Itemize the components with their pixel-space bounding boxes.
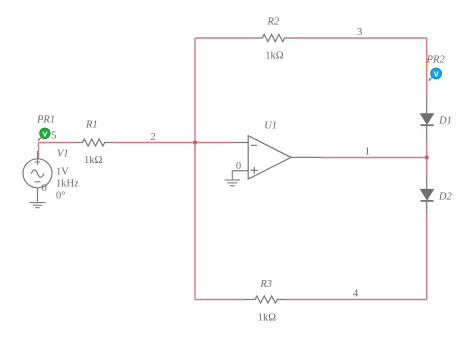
wire D2 cathode to bottom-right corner (net 4)	[426, 214, 428, 299]
svg-text:R1: R1	[85, 120, 98, 131]
svg-text:0: 0	[236, 161, 241, 172]
probe PR2 attach mark	[426, 63, 428, 68]
svg-text:PR2: PR2	[426, 55, 446, 66]
probe PR2 leader arrow	[429, 77, 432, 80]
wire R1 to op-amp minus input (net 2)	[113, 142, 233, 144]
svg-text:1kΩ: 1kΩ	[265, 51, 284, 62]
svg-text:V1: V1	[57, 149, 69, 160]
svg-text:1V: 1V	[56, 167, 69, 178]
wire left feedback vertical (net 2)	[194, 38, 196, 300]
wire D1 cathode to D2 anode (net 1 vertical)	[426, 140, 428, 175]
svg-text:1: 1	[365, 147, 370, 158]
node junction at net 1	[425, 155, 429, 159]
probe PR2 circle	[431, 68, 442, 79]
wire op-amp output to right vertical (net 1)	[322, 157, 427, 159]
V1 minus sign	[35, 181, 41, 183]
svg-text:1kΩ: 1kΩ	[258, 313, 277, 324]
resistor R2	[254, 35, 294, 42]
svg-text:1kHz: 1kHz	[56, 179, 79, 190]
wire bottom right to R3 (net 4)	[286, 299, 427, 301]
ground at op-amp plus input	[225, 171, 240, 186]
diode D2	[420, 175, 433, 214]
wire R3 to bottom-left corner (net 2)	[195, 299, 244, 301]
wire V1 top to R1 (net 5)	[39, 143, 75, 159]
V1 sine symbol	[31, 170, 44, 177]
resistor R3	[244, 296, 286, 303]
svg-text:R2: R2	[267, 16, 280, 27]
probe PR1 circle	[40, 128, 51, 139]
probe PR1 leader arrow	[39, 137, 42, 140]
V1 plus sign	[35, 159, 41, 165]
wire R2 to top-right corner down to D1 (net 3)	[294, 38, 427, 97]
svg-text:D1: D1	[438, 116, 452, 127]
op-amp U1	[232, 136, 322, 179]
svg-text:V: V	[434, 70, 439, 79]
svg-text:0: 0	[42, 183, 47, 194]
wire top left to R2 (net 2)	[195, 37, 254, 39]
op-amp U1 minus sign	[251, 144, 257, 146]
diode D1	[420, 97, 433, 140]
svg-text:1kΩ: 1kΩ	[84, 155, 103, 166]
svg-text:2: 2	[150, 132, 155, 143]
svg-text:U1: U1	[264, 121, 277, 132]
AC voltage source V1	[23, 151, 52, 203]
svg-text:5: 5	[51, 131, 56, 142]
svg-text:0°: 0°	[56, 191, 65, 202]
svg-text:4: 4	[353, 289, 359, 300]
svg-text:3: 3	[357, 27, 362, 38]
op-amp U1 plus sign	[251, 167, 258, 174]
svg-text:V: V	[42, 129, 47, 138]
ground at V1	[30, 203, 46, 208]
resistor R1	[75, 139, 113, 146]
svg-text:PR1: PR1	[36, 115, 55, 126]
svg-text:D2: D2	[438, 192, 453, 203]
svg-text:R3: R3	[259, 279, 272, 290]
node junction at net 2 crossing	[193, 140, 197, 144]
